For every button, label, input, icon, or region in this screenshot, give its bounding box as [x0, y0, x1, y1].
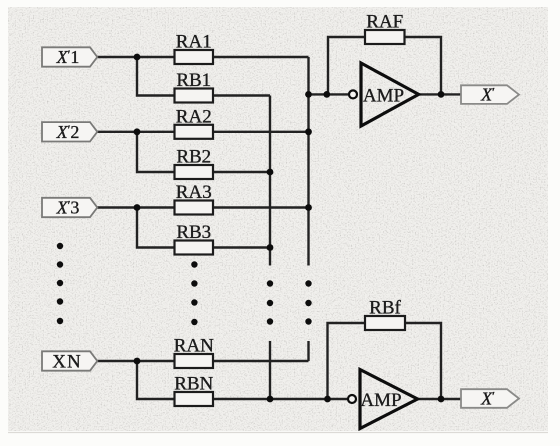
svg-text:RB2: RB2: [176, 147, 211, 168]
svg-text:X′2: X′2: [56, 122, 80, 142]
svg-text:RBN: RBN: [174, 374, 213, 395]
svg-text:RAN: RAN: [174, 336, 214, 357]
svg-text:RA1: RA1: [176, 32, 212, 53]
svg-text:X′1: X′1: [56, 47, 80, 67]
svg-text:RA3: RA3: [176, 182, 212, 203]
svg-text:RB3: RB3: [176, 222, 211, 243]
svg-text:AMP: AMP: [360, 390, 401, 411]
svg-text:XN: XN: [52, 352, 81, 373]
svg-text:RBf: RBf: [369, 298, 401, 319]
svg-text:X′3: X′3: [56, 198, 80, 218]
svg-text:RA2: RA2: [176, 106, 212, 127]
svg-text:RB1: RB1: [176, 70, 211, 91]
svg-text:AMP: AMP: [363, 86, 404, 107]
svg-text:RAF: RAF: [366, 12, 403, 33]
